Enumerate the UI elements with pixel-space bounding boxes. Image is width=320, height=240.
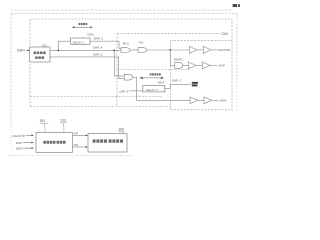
block U1 text line 1 — [34, 52, 46, 55]
buffer A6 — [204, 97, 212, 104]
block U1 text line 2 — [35, 56, 44, 59]
wire A5 to A6 — [198, 99, 204, 101]
wire DP between boxes — [73, 135, 87, 137]
svg-text:DAP: DAP — [219, 64, 225, 68]
gate Q2 (TA1) — [138, 48, 147, 53]
gate Q4 — [175, 62, 183, 68]
junction dot B — [113, 50, 115, 52]
wire Q4 to A3 — [183, 64, 189, 66]
delay element DELAY2 box — [143, 85, 165, 92]
wire arrow DAN into box — [23, 147, 32, 149]
page header rule — [10, 9, 233, 11]
wire tap to DELAY1 — [58, 41, 70, 50]
gate Q3 (lower) — [124, 74, 132, 80]
buffer A2 — [203, 46, 211, 53]
outer dashed border — [11, 13, 237, 15]
svg-text:DAIN: DAIN — [17, 49, 25, 53]
block U1 input buffer box — [30, 47, 51, 62]
wire A3 to A4 — [196, 64, 202, 66]
delay element DELAY1 box — [71, 38, 91, 44]
svg-text:DAOUTP: DAOUTP — [218, 48, 231, 52]
wire into DELAY2 — [129, 90, 143, 92]
wire arrow DAP into box — [23, 142, 32, 144]
block U2 driver box — [36, 133, 73, 153]
wire A1 to A2 — [197, 49, 203, 51]
svg-text:DDA: DDA — [158, 80, 164, 84]
net label DG1 (dark) — [192, 82, 198, 87]
block U2 text — [43, 141, 65, 144]
svg-text:DAN: DAN — [16, 147, 22, 151]
svg-text:DAP: DAP — [16, 141, 22, 145]
svg-text:DAP_3: DAP_3 — [94, 37, 104, 41]
wire arrow DAOUTP into box — [26, 134, 32, 136]
delay annotation arrow 2 — [141, 77, 162, 79]
wire DN between boxes — [73, 146, 87, 148]
buffer A5 — [190, 97, 198, 104]
left sub-module dashed boundary — [30, 34, 163, 107]
svg-text:DN: DN — [74, 143, 78, 147]
right output-stage dashed box — [170, 41, 232, 110]
svg-text:TA1: TA1 — [138, 41, 143, 45]
svg-text:DIN: DIN — [222, 32, 228, 36]
wire DAIN input arrow — [26, 49, 28, 51]
page corner text — [233, 4, 237, 7]
wire to DAOUTP — [211, 49, 217, 51]
wire DELAY1 output to gate Q1 — [90, 41, 121, 48]
wire to DAP — [210, 64, 217, 66]
svg-text:DAP_5: DAP_5 — [120, 89, 129, 93]
svg-text:200: 200 — [40, 119, 46, 123]
svg-text:DAP_C: DAP_C — [172, 79, 182, 83]
delay annotation label 2 — [150, 73, 161, 75]
junction dot C — [169, 49, 171, 51]
mid division dashed line — [117, 69, 190, 71]
wire to DAN — [212, 99, 219, 101]
gate Q1 (MU1) — [121, 48, 130, 53]
buffer A4 — [202, 62, 210, 69]
junction dot A — [57, 50, 59, 52]
wire DELAY2 output up to DG1 — [165, 84, 191, 88]
svg-text:101: 101 — [42, 44, 47, 48]
wire W2 (lower output of U1) — [50, 57, 124, 79]
buffer A3 — [188, 62, 196, 69]
svg-text:DELAY 1: DELAY 1 — [73, 40, 85, 44]
inner dashed module box — [30, 19, 232, 107]
svg-text:MOPC: MOPC — [174, 58, 183, 62]
upper division dashed line — [117, 33, 221, 35]
svg-text:100: 100 — [60, 118, 66, 122]
buffer A1 — [189, 46, 197, 53]
svg-text:DAP_4: DAP_4 — [93, 46, 103, 50]
svg-text:DAOUTP: DAOUTP — [13, 134, 26, 138]
svg-text:300: 300 — [119, 128, 125, 132]
wire from dot B down to gate Q3 — [114, 50, 124, 76]
delay annotation arrow 1 — [73, 26, 91, 28]
wire main path to output stage — [147, 49, 190, 51]
wire Q3 output down to row4 — [133, 77, 137, 100]
block U3 text — [93, 139, 123, 142]
wire W1 (upper output of U1) — [50, 49, 121, 51]
svg-text:DELAY 2: DELAY 2 — [146, 88, 158, 92]
svg-text:DAN: DAN — [220, 99, 226, 103]
delay annotation label 1 — [79, 23, 88, 25]
block U3 receiver box — [88, 134, 127, 153]
svg-text:DP: DP — [74, 132, 78, 136]
wire row4 to buffer A5 — [137, 99, 191, 101]
wire Q1 to Q2 — [130, 49, 138, 51]
svg-text:DAP_5: DAP_5 — [93, 52, 103, 56]
svg-text:MU1: MU1 — [123, 41, 129, 45]
wire dot C down to gate Q4 — [170, 50, 175, 65]
